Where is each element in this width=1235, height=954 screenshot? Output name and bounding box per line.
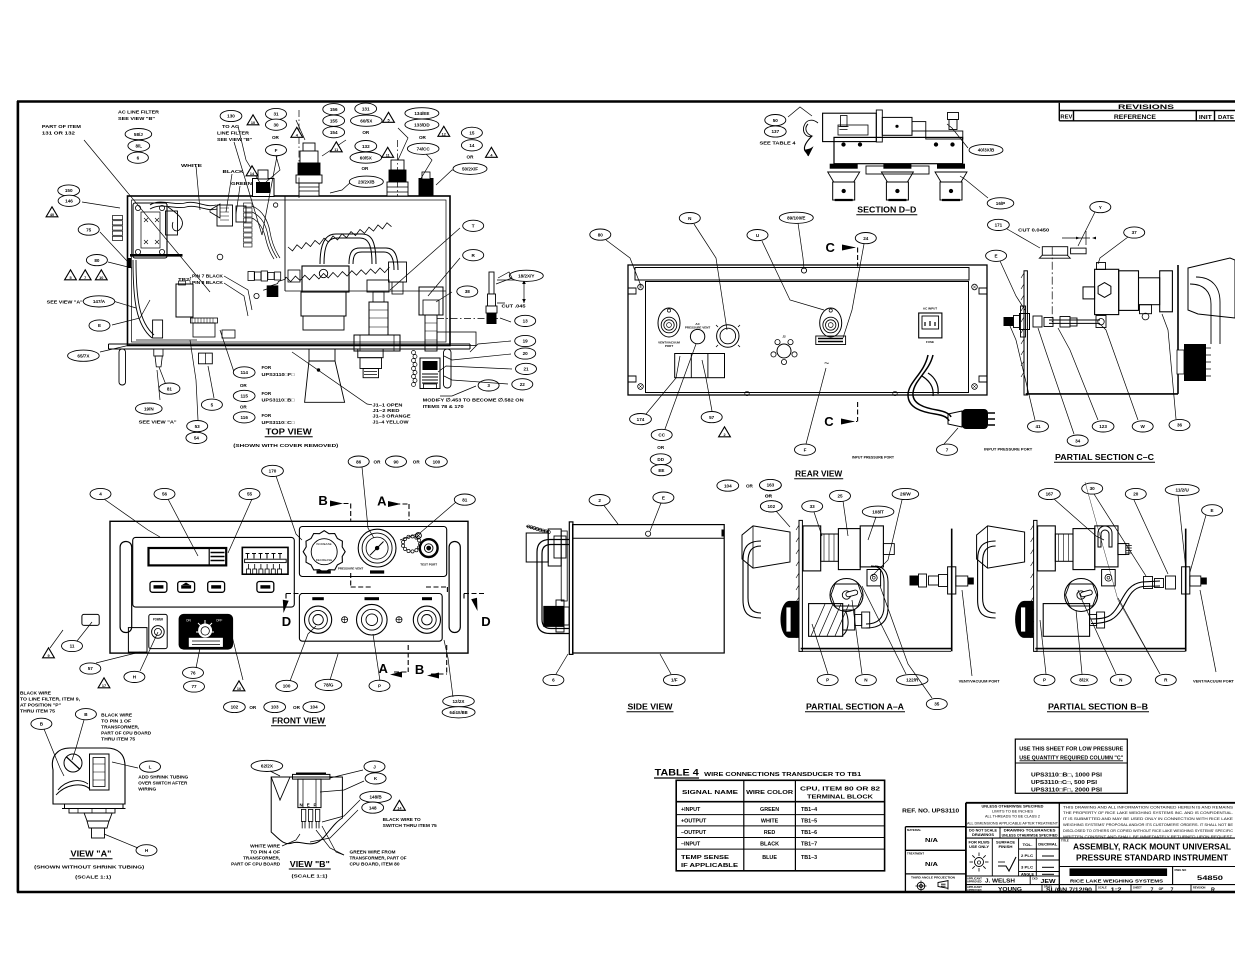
balloon 81 [454, 494, 475, 505]
svg-text:BLACK WIRE TO: BLACK WIRE TO [383, 817, 421, 822]
svg-text:TOL.: TOL. [1023, 843, 1033, 847]
B-B elbow tube from cone [978, 541, 996, 618]
svg-text:THIS DRAWING AND ALL INFORMATI: THIS DRAWING AND ALL INFORMATION CONTAIN… [1063, 805, 1234, 809]
view a screw head [64, 754, 82, 772]
CC right flange [1160, 271, 1173, 312]
svg-text:OR: OR [272, 135, 280, 140]
balloon CC [651, 429, 672, 440]
svg-text:OF: OF [1159, 887, 1164, 891]
svg-text:DATE: DATE [1218, 115, 1234, 121]
svg-text:57: 57 [88, 666, 94, 671]
B-B cone funnel left [977, 526, 1025, 568]
B-B hex spacer [1055, 534, 1073, 561]
svg-text:116: 116 [240, 415, 248, 420]
rlws sun symbol [975, 858, 984, 867]
balloon E [653, 492, 674, 503]
balloon 7 [937, 444, 958, 455]
svg-text:MODIFY ∅.453 TO BECOME ∅.582 O: MODIFY ∅.453 TO BECOME ∅.582 ON [423, 398, 525, 404]
balloon 11 [62, 640, 83, 651]
balloon 55 [239, 488, 260, 499]
svg-text:(SHOWN WITH COVER REMOVED): (SHOWN WITH COVER REMOVED) [233, 443, 339, 449]
svg-text:J1–1 OPEN: J1–1 OPEN [373, 402, 404, 408]
svg-text:B: B [318, 493, 327, 508]
side view handle [537, 540, 569, 634]
svg-text:ALL THREADS TO BE CLASS 2: ALL THREADS TO BE CLASS 2 [985, 815, 1040, 819]
svg-text:102: 102 [231, 705, 239, 710]
svg-text:131: 131 [362, 106, 370, 111]
svg-text:FRONT VIEW: FRONT VIEW [272, 717, 325, 726]
balloon 104 [717, 480, 739, 491]
balloon 155 [323, 115, 345, 126]
transducer connector teardrop [820, 308, 842, 337]
balloon 114 [233, 367, 255, 378]
balloon F [266, 145, 287, 156]
svg-text:11: 11 [334, 148, 338, 152]
rear view top bar [635, 268, 969, 281]
A-A transducer body [809, 604, 843, 637]
svg-text:SEE VIEW "B": SEE VIEW "B" [118, 116, 155, 122]
svg-text:17: 17 [102, 684, 106, 688]
svg-text:PART OF ITEM: PART OF ITEM [42, 124, 81, 130]
svg-text:WIRE CONNECTIONS TRANSDUCER TO: WIRE CONNECTIONS TRANSDUCER TO TB1 [704, 772, 861, 778]
balloon 6 [127, 152, 148, 163]
balloon 108/T [862, 506, 894, 517]
balloon 156 [323, 104, 345, 115]
svg-text:1/F: 1/F [671, 678, 678, 683]
balloon 20 [515, 348, 536, 359]
balloon 34 [1067, 435, 1088, 446]
svg-text:41: 41 [1035, 424, 1041, 429]
CC right chassis vertical [1177, 265, 1179, 394]
svg-text:TB1–3: TB1–3 [801, 855, 817, 861]
svg-text:131 OR 132: 131 OR 132 [42, 131, 75, 137]
svg-text:19/N: 19/N [144, 406, 154, 411]
svg-text:40: 40 [50, 213, 54, 217]
svg-text:PRESSURE VENT: PRESSURE VENT [685, 326, 711, 330]
svg-text:~: ~ [824, 358, 829, 368]
svg-text:62/2X: 62/2X [261, 764, 274, 769]
balloon 58/J [125, 129, 152, 140]
svg-text:TO AC: TO AC [222, 124, 240, 130]
balloon 133/DD [405, 119, 439, 130]
B-B top valve flange [1038, 526, 1056, 571]
balloon 50 [765, 115, 786, 126]
svg-text:102: 102 [767, 504, 775, 509]
svg-text:167: 167 [1046, 492, 1054, 497]
svg-text:146: 146 [65, 199, 73, 204]
svg-text:OR: OR [413, 459, 421, 464]
leader R [428, 258, 460, 296]
svg-text:10: 10 [99, 276, 103, 280]
A-A plate hatching [796, 525, 799, 638]
svg-text:DO NOT SCALE: DO NOT SCALE [969, 829, 997, 833]
VIEW B filter outline [271, 777, 342, 844]
svg-text:114: 114 [240, 370, 248, 375]
svg-text:SURFACE: SURFACE [996, 841, 1015, 845]
long V leaders to ac line filter [234, 142, 262, 235]
tube arch 2 [349, 248, 398, 270]
svg-text:75: 75 [86, 227, 92, 232]
svg-text:GREEN: GREEN [231, 181, 253, 187]
balloon E [1202, 505, 1223, 516]
svg-text:YOUNG: YOUNG [998, 887, 1022, 893]
svg-text:7: 7 [1171, 887, 1174, 893]
svg-text:137: 137 [771, 129, 779, 134]
B-B plate hatching [1031, 525, 1034, 638]
balloon 100 [276, 680, 298, 691]
svg-text:40/3X/B: 40/3X/B [978, 148, 995, 153]
balloon 62/2X [251, 760, 283, 771]
balloon U [747, 230, 768, 241]
chain cap screw [415, 533, 421, 539]
balloon 102 [224, 701, 246, 712]
A-A gauge body circle [830, 579, 863, 612]
power cord [908, 355, 949, 421]
solenoid connector on top wall [296, 143, 322, 196]
leader 3 [440, 386, 476, 396]
svg-text:81: 81 [462, 497, 468, 502]
balloon 123 [1092, 421, 1114, 432]
svg-text:TERMINAL BLOCK: TERMINAL BLOCK [807, 794, 873, 800]
right upper subpanel [299, 527, 446, 577]
VIEW A switch body [52, 748, 125, 804]
svg-text:F: F [804, 447, 807, 452]
svg-text:78/G: 78/G [324, 683, 334, 688]
svg-text:PART OF CPU BOARD: PART OF CPU BOARD [101, 731, 152, 736]
fuse block three squares [675, 354, 725, 378]
dd cylinder [876, 110, 882, 142]
svg-text:11: 11 [70, 644, 75, 649]
svg-text:P: P [1043, 678, 1046, 683]
svg-text:33: 33 [810, 504, 816, 509]
leader 18/2X/Y [496, 272, 512, 284]
B-B mounting plate [1034, 520, 1037, 651]
svg-text:THRU ITEM 75: THRU ITEM 75 [101, 737, 135, 742]
balloon 60/5X [350, 152, 382, 163]
svg-text:GREEN: GREEN [760, 807, 779, 813]
svg-text:TITLE: TITLE [1061, 839, 1069, 843]
balloon 81 [159, 383, 180, 394]
warning triangle 12 [438, 126, 450, 136]
svg-text:12: 12 [442, 133, 446, 137]
section line B continuation in panel [351, 573, 373, 587]
svg-text:9: 9 [47, 654, 49, 658]
svg-text:L: L [149, 764, 152, 769]
standoff screw mid [199, 353, 213, 364]
pcb screw hole [217, 254, 223, 260]
svg-text:OR: OR [361, 166, 369, 171]
B-B right panel vertical [1185, 529, 1187, 652]
svg-text:115: 115 [240, 394, 248, 399]
svg-text:122/R: 122/R [906, 678, 919, 683]
svg-text:3 PLC: 3 PLC [1021, 865, 1033, 869]
svg-text:80: 80 [94, 258, 100, 263]
B-B clamp detail in right block [1098, 526, 1112, 547]
balloon 22 [512, 379, 533, 390]
svg-text:77: 77 [191, 684, 197, 689]
dd fitting right top [948, 113, 959, 120]
revisions table [1059, 103, 1235, 121]
warning triangle 14 [246, 166, 258, 176]
svg-text:100: 100 [433, 459, 441, 464]
svg-text:123: 123 [1099, 424, 1107, 429]
svg-text:OR: OR [746, 483, 754, 488]
svg-text:PRESSURE STANDARD INSTRUMENT: PRESSURE STANDARD INSTRUMENT [1076, 853, 1229, 863]
section D marker left [286, 594, 303, 601]
svg-text:IT IS SUBMITTED AND MAY BE USE: IT IS SUBMITTED AND MAY BE USED ONLY IN … [1063, 817, 1234, 821]
knob inner circle [311, 539, 337, 565]
B-B small bracket with screw [1102, 570, 1116, 586]
balloon 8/L [128, 140, 150, 151]
balloon 137 [764, 126, 786, 137]
A-A transducer front small fittings [855, 615, 862, 626]
svg-text:WHITE: WHITE [181, 163, 203, 169]
svg-text:81: 81 [167, 386, 173, 391]
svg-text:65/7X: 65/7X [77, 353, 90, 358]
large circular connector [717, 325, 739, 347]
balloon H [124, 671, 145, 682]
svg-text:TEMP SENSE: TEMP SENSE [681, 855, 730, 861]
svg-text:OR: OR [765, 493, 773, 498]
57 box on panel [128, 628, 147, 653]
svg-text:J1–4 YELLOW: J1–4 YELLOW [373, 419, 410, 425]
balloon 134/EE [405, 108, 439, 119]
dash-dot section line through solenoid [298, 110, 300, 200]
svg-text:REV: REV [1060, 115, 1072, 121]
svg-text:DD: DD [657, 457, 664, 462]
svg-text:1:2: 1:2 [1111, 887, 1122, 893]
power plug [948, 411, 962, 427]
svg-text:90: 90 [393, 459, 399, 464]
balloon 53 [187, 421, 208, 432]
CC strain relief boot hatched [1184, 344, 1206, 381]
svg-text:DECREASE: DECREASE [316, 558, 333, 562]
balloon 1/F [663, 674, 685, 685]
svg-text:34: 34 [1075, 438, 1081, 443]
svg-text:7: 7 [1151, 887, 1154, 893]
connector VENT right [413, 606, 440, 633]
B-B tube from transducer to bulkhead [1091, 581, 1160, 619]
connector INPUT [305, 606, 332, 633]
svg-text:RED: RED [764, 830, 775, 836]
svg-text:ADD SHRINK TUBING: ADD SHRINK TUBING [138, 774, 188, 779]
svg-text:WEIGHING SYSTEMS' PROPOSAL AND: WEIGHING SYSTEMS' PROPOSAL AND/OR ITS CU… [1063, 823, 1234, 827]
svg-text:7: 7 [946, 447, 949, 452]
balloon 115 [233, 390, 255, 401]
svg-text:174: 174 [637, 417, 645, 422]
svg-text:80: 80 [598, 232, 604, 237]
svg-text:OR: OR [293, 705, 301, 710]
svg-text:CUT .045: CUT .045 [502, 304, 526, 310]
svg-text:OR: OR [657, 445, 665, 450]
vernier label bar right [370, 570, 384, 573]
A-A curved tube right [866, 566, 884, 624]
top view pcb divider wall [284, 196, 286, 291]
balloon 104 [303, 701, 325, 712]
warning triangle 4 [291, 127, 303, 137]
balloon 56 [154, 488, 175, 499]
B-B spark plug fitting [1118, 544, 1126, 555]
svg-text:APPROVED: APPROVED [967, 879, 982, 883]
svg-text:58/J: 58/J [134, 132, 143, 137]
svg-text:UNLESS OTHERWISE SPECIFIED: UNLESS OTHERWISE SPECIFIED [982, 805, 1045, 809]
balloon 14 [461, 140, 482, 151]
svg-text:14: 14 [469, 143, 475, 148]
svg-text:104: 104 [310, 705, 318, 710]
dd feet [830, 164, 858, 169]
A-A transducer cap black [781, 601, 799, 638]
B-B transducer cap black [1015, 601, 1033, 638]
svg-text:WHITE WIRE: WHITE WIRE [250, 843, 280, 848]
svg-text:PARTIAL SECTION B–B: PARTIAL SECTION B–B [1048, 703, 1148, 712]
svg-text:E: E [307, 803, 310, 808]
svg-text:UPS3110□F□, 2000 PSI: UPS3110□F□, 2000 PSI [1031, 787, 1103, 793]
svg-text:DWG NO: DWG NO [1175, 868, 1188, 872]
svg-text:J1–2 RED: J1–2 RED [373, 408, 401, 414]
svg-text:PRESSURE VENT: PRESSURE VENT [338, 566, 364, 570]
svg-text:156: 156 [330, 107, 338, 112]
warning triangle 10 [95, 270, 107, 280]
svg-text:INPUT PRESSURE PORT: INPUT PRESSURE PORT [852, 456, 895, 460]
CC flange on bulkhead [1021, 306, 1026, 337]
balloon 40/3X/B [969, 144, 1003, 155]
svg-text:E: E [1211, 508, 1214, 513]
side view right rear tab [722, 530, 725, 537]
test port connector below plate [420, 358, 440, 389]
svg-text:86: 86 [356, 459, 362, 464]
balloon 77 [184, 681, 205, 692]
warning triangle 9 [43, 648, 55, 658]
balloon 24 [855, 233, 876, 244]
svg-text:36: 36 [1177, 423, 1183, 428]
balloon 150 [58, 185, 80, 196]
A-A elbow tube from cone [743, 541, 761, 618]
svg-text:60/5X: 60/5X [360, 118, 373, 123]
white-black-green wire labels leaders [196, 166, 200, 210]
balloon F [795, 444, 816, 455]
svg-text:6: 6 [552, 678, 555, 683]
svg-text:VIEW "A": VIEW "A" [71, 849, 112, 859]
leader from part-of-item note [84, 140, 210, 292]
svg-text:DRAWINGS: DRAWINGS [972, 833, 994, 837]
leader pin8 [224, 283, 248, 316]
units legend box [242, 547, 288, 574]
svg-text:J1–3 ORANGE: J1–3 ORANGE [373, 414, 412, 420]
svg-text:SWITCH THRU ITEM 75: SWITCH THRU ITEM 75 [383, 823, 437, 828]
black connector J4 on board [267, 285, 279, 297]
fitting chain to regulator [288, 270, 300, 282]
svg-text:FINISH: FINISH [999, 845, 1014, 849]
svg-text:31: 31 [273, 112, 279, 117]
solenoid valve right [419, 287, 443, 315]
svg-text:E: E [662, 495, 665, 500]
dd transducer body [823, 113, 877, 141]
warning triangle 5 [383, 112, 395, 122]
front buttons [150, 582, 167, 593]
svg-text:OR: OR [467, 155, 475, 160]
svg-text:CKD: CKD [1032, 877, 1038, 881]
svg-text:UNLESS OTHERWISE SPECIFIED: UNLESS OTHERWISE SPECIFIED [1002, 833, 1059, 837]
svg-text:6: 6 [137, 155, 140, 160]
top view rack ear left [119, 349, 126, 385]
svg-text:TOP VIEW: TOP VIEW [266, 428, 313, 437]
svg-text:P: P [314, 803, 317, 808]
view b pins [301, 809, 305, 821]
svg-text:22: 22 [520, 382, 526, 387]
balloon 163 [760, 479, 782, 490]
svg-text:12/2X: 12/2X [452, 699, 465, 704]
svg-text:134/EE: 134/EE [414, 111, 429, 116]
svg-text:O: O [977, 860, 982, 866]
warning triangle 11 [382, 147, 394, 157]
front view left handle [120, 542, 132, 633]
balloon 26/W [892, 488, 919, 499]
svg-text:2: 2 [723, 433, 725, 437]
svg-text:WIRE COLOR: WIRE COLOR [746, 790, 793, 796]
side view front connector stack top [526, 533, 548, 562]
svg-text:D: D [481, 614, 490, 629]
svg-text:REFERENCE: REFERENCE [1114, 115, 1156, 121]
balloon 12/2X [443, 696, 475, 707]
svg-text:54850: 54850 [1197, 875, 1223, 882]
balloon 5 [201, 399, 222, 410]
balloon 103 [264, 701, 286, 712]
balloon 148 [362, 802, 384, 813]
svg-text:FOR: FOR [262, 365, 272, 370]
view a stem [84, 813, 112, 821]
balloon 54 [186, 432, 207, 443]
B-B transducer front small fittings [1090, 615, 1097, 626]
svg-text:TO LINE FILTER, ITEM 9,: TO LINE FILTER, ITEM 9, [20, 697, 80, 702]
balloon 15 [461, 127, 482, 138]
top view rack ear right [444, 349, 452, 388]
svg-text:P: P [378, 684, 381, 689]
svg-text:64/4X/BB: 64/4X/BB [450, 710, 468, 715]
svg-text:SEE TABLE 4: SEE TABLE 4 [760, 141, 796, 147]
panel screws between connectors [342, 617, 348, 623]
view b body block [298, 779, 321, 808]
CC bulkhead nut [1020, 314, 1030, 330]
connector VERNIER center [357, 604, 388, 635]
svg-text:ANGLE: ANGLE [1021, 872, 1035, 876]
balloon 38 [457, 286, 478, 297]
view a switch block [90, 754, 110, 790]
section line A continuation in panel [426, 587, 447, 594]
connector J3 on wall [236, 206, 246, 222]
A-A right block [860, 526, 883, 567]
A-A mounting plate [799, 520, 802, 651]
leader 9 warn [50, 630, 63, 648]
wire harness top left [150, 202, 216, 206]
svg-text:5: 5 [211, 402, 214, 407]
svg-text:LIMITS TO BE INCHES: LIMITS TO BE INCHES [992, 810, 1033, 814]
balloon 35 [926, 698, 947, 709]
svg-text:AC INPUT: AC INPUT [923, 307, 937, 311]
svg-text:DISCLOSED TO OTHERS OR COPIED: DISCLOSED TO OTHERS OR COPIED WITHOUT RI… [1063, 829, 1234, 833]
rear label plate [816, 336, 846, 345]
svg-text:PIN 8 BLACK: PIN 8 BLACK [192, 280, 224, 286]
balloon 147/A [83, 296, 115, 307]
svg-text:SEE VIEW "A": SEE VIEW "A" [139, 420, 177, 426]
balloon R [463, 250, 484, 261]
balloon P [369, 680, 390, 691]
CC bulkhead panel vertical [1024, 271, 1027, 395]
svg-text:PORT: PORT [665, 344, 674, 348]
balloon 36 [1169, 419, 1190, 430]
svg-text:16/P: 16/P [996, 201, 1005, 206]
svg-text:50: 50 [773, 118, 779, 123]
svg-text:USE ONLY: USE ONLY [969, 845, 990, 849]
